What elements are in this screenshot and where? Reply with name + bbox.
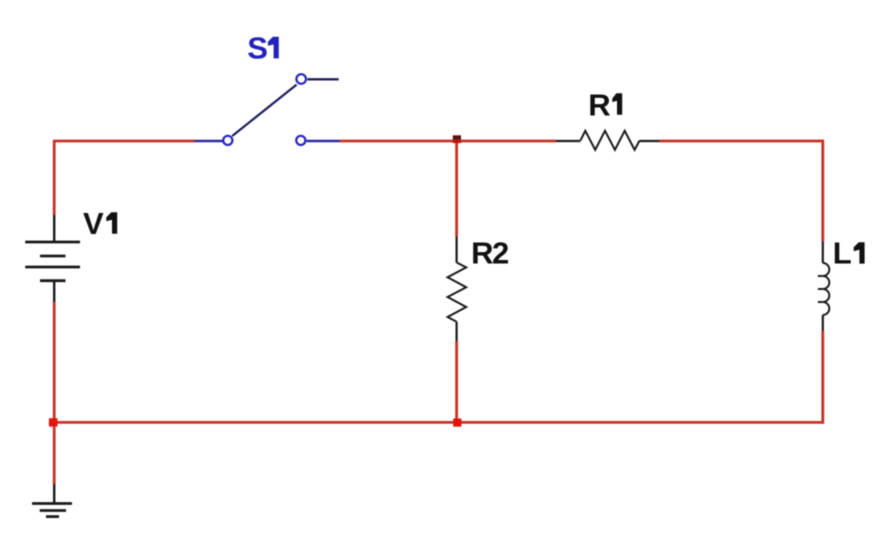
junction dot at R2 bottom node — [453, 419, 461, 427]
resistor R1 left lead — [556, 140, 580, 142]
junction dot at ground node — [49, 418, 58, 426]
battery V1 plate 1 (long) — [25, 241, 80, 244]
switch S1 right terminal circle — [296, 136, 305, 145]
svg-text:R2: R2 — [471, 236, 508, 271]
switch S1 right stub (blue) — [307, 140, 340, 142]
inductor L1 coil ticks — [818, 276, 823, 302]
svg-text:V: V — [83, 206, 104, 241]
resistor R1 zigzag — [580, 131, 639, 150]
battery V1 plate 4 (short) — [40, 279, 66, 282]
resistor R2 top lead — [456, 237, 458, 263]
ground bar 3 — [46, 515, 59, 518]
ground lead — [53, 484, 55, 504]
switch S1 blade (diagonal) — [232, 85, 296, 136]
wire R2 branch upper — [455, 141, 458, 237]
inductor L1 top lead — [822, 242, 824, 264]
battery V1 bottom lead — [53, 281, 55, 302]
battery V1 top lead — [53, 215, 55, 242]
inductor L1 coil (4 loops) — [823, 263, 830, 315]
resistor R2 bottom lead — [456, 322, 458, 341]
wire left rail lower (battery to ground junction) — [53, 302, 56, 484]
switch S1 top stub — [307, 78, 338, 80]
resistor R1 right lead — [640, 140, 660, 142]
ground bar 1 — [32, 502, 72, 505]
svg-text:S: S — [247, 30, 267, 65]
svg-text:L: L — [833, 236, 851, 271]
battery V1 plate 2 (short) — [40, 255, 66, 258]
wire R1 to top-right corner — [660, 140, 825, 143]
wire bottom rail — [53, 421, 824, 424]
wire top-left horizontal (V1 top to switch) — [54, 140, 194, 143]
wire R2 branch lower — [455, 341, 458, 422]
wire left rail upper (top corner down to battery) — [53, 140, 56, 215]
wire right rail upper (corner to L1) — [821, 140, 824, 242]
wire switch to R1 (through R2 top junction) — [340, 140, 557, 143]
inductor L1 bottom lead — [822, 315, 824, 331]
switch S1 left lead (blue) — [195, 140, 223, 142]
switch S1 top terminal circle — [296, 74, 306, 84]
switch S1 left terminal circle — [223, 136, 232, 145]
svg-text:R: R — [588, 87, 610, 122]
resistor R2 zigzag — [448, 263, 467, 322]
ground bar 2 — [40, 509, 66, 512]
battery V1 plate 3 (long) — [25, 266, 80, 269]
wire right rail lower (L1 to bottom corner) — [821, 331, 824, 424]
junction dot at R2 top node — [453, 135, 461, 139]
